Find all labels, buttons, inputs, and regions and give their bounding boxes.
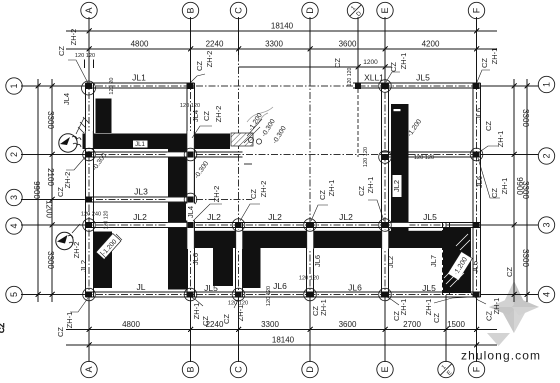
column A2 [83, 148, 96, 161]
svg-text:CZ: CZ [56, 327, 65, 337]
bubble B top [182, 2, 198, 18]
svg-text:JL1: JL1 [132, 73, 146, 83]
svg-text:CZ: CZ [222, 314, 231, 324]
leader A5 bottom [70, 298, 88, 312]
beam JL2 row4 A-F [85, 221, 480, 223]
svg-text:120 120: 120 120 [228, 301, 248, 307]
bottom dim line overall [66, 344, 497, 346]
leader E1 top [386, 72, 400, 82]
svg-text:4800: 4800 [131, 40, 149, 49]
short dash mark C-D bay [244, 163, 252, 165]
bubble 2 left [6, 146, 22, 162]
grid line C vertical [238, 17, 240, 362]
label JL4 white box on B beam [186, 204, 195, 221]
grid row 5 horizontal [21, 294, 538, 296]
svg-text:5: 5 [9, 292, 19, 297]
svg-text:120 120: 120 120 [414, 155, 434, 161]
grid line D vertical [309, 17, 311, 362]
svg-text:3600: 3600 [339, 40, 357, 49]
wall WE vertical right of E [391, 104, 409, 231]
svg-text:F: F [472, 366, 482, 372]
beam JL1 row1 A-B [85, 82, 194, 84]
wall W3 vertical at B left [168, 148, 188, 290]
svg-text:E: E [380, 7, 390, 13]
walls (black) [83, 99, 472, 294]
svg-text:JL3: JL3 [134, 187, 148, 197]
grid row 4 horizontal [21, 224, 538, 226]
elevation labels rotated [91, 112, 423, 180]
svg-text:ZH-1: ZH-1 [192, 303, 201, 320]
bubble C top [230, 2, 246, 18]
bubble 4 right [538, 286, 554, 302]
svg-text:C: C [234, 7, 244, 14]
column A5 [83, 288, 96, 301]
svg-text:D: D [305, 366, 315, 373]
leader F1 top [477, 70, 490, 82]
svg-text:CZ: CZ [249, 189, 258, 199]
bubble 4 left [6, 218, 22, 234]
wall W2 long horizontal bar rows1-2 [83, 134, 231, 150]
svg-text:-1.200: -1.200 [248, 112, 264, 132]
svg-text:3300: 3300 [521, 109, 530, 127]
svg-text:9900: 9900 [515, 177, 524, 195]
white tick in WE top [394, 109, 401, 111]
leader C5 bottom [234, 297, 239, 308]
beam JL7 line 1/E lower [442, 222, 444, 297]
svg-text:120 120: 120 120 [299, 276, 319, 282]
bubble 5 left [6, 286, 22, 302]
leader F2 mid [478, 146, 498, 153]
svg-text:ZH-1: ZH-1 [399, 53, 408, 70]
svg-text:zhulong.com: zhulong.com [461, 349, 541, 363]
faint scribbles C-D bay [247, 107, 273, 124]
svg-text:JL4: JL4 [186, 206, 195, 218]
svg-text:CZ: CZ [195, 61, 204, 71]
svg-text:JL6: JL6 [471, 261, 480, 273]
left dim ticks [36, 84, 55, 298]
svg-text:ZH-1: ZH-1 [65, 312, 74, 329]
svg-text:CZ: CZ [484, 121, 493, 131]
svg-text:18140: 18140 [272, 336, 295, 345]
leader E5 bottom [387, 297, 399, 305]
svg-text:JL6: JL6 [191, 253, 200, 265]
svg-text:JL4: JL4 [191, 110, 200, 122]
left dim lines [51, 79, 53, 302]
watermark logo bottom right [487, 281, 539, 346]
grid line B vertical [190, 17, 192, 362]
bubble A top [81, 2, 97, 18]
svg-text:9900: 9900 [32, 181, 41, 199]
column B3 [184, 193, 197, 206]
leader A2 mid [66, 155, 87, 170]
wall block at 1/E [443, 228, 471, 293]
svg-text:XLL1: XLL1 [364, 73, 384, 83]
svg-text:CZ: CZ [485, 311, 494, 321]
svg-text:CZ: CZ [392, 311, 401, 321]
bubble D bottom [302, 361, 318, 377]
bubble 1/D top rotated [344, 0, 367, 22]
svg-text:CZ: CZ [318, 190, 327, 200]
column E5 [379, 288, 392, 301]
bubble F top [468, 2, 484, 18]
column B4 [188, 222, 194, 228]
svg-text:4: 4 [542, 292, 552, 297]
bubble B bottom [182, 361, 198, 377]
bubble 1 right [538, 76, 554, 92]
rotated beam labels [56, 29, 514, 337]
bubble D top [302, 2, 318, 18]
svg-text:F: F [472, 7, 482, 13]
svg-text:120 240: 120 240 [81, 212, 101, 218]
pit hatch box near A4 [96, 234, 121, 260]
column D4 [304, 219, 317, 232]
svg-text:ZH-2: ZH-2 [214, 106, 223, 123]
svg-text:3300: 3300 [261, 320, 279, 329]
svg-text:3: 3 [9, 195, 19, 200]
left row leaders [21, 85, 84, 87]
detail callout A circle [56, 224, 80, 250]
bubble F bottom [468, 361, 484, 377]
crossing row4 beam over WE [390, 222, 410, 227]
mini dim strokes at A [84, 60, 86, 69]
svg-text:-0.300: -0.300 [272, 125, 288, 145]
wall band W5 rows4-5 B to 1/E [195, 231, 445, 248]
svg-text:3600: 3600 [339, 320, 357, 329]
column F5 [474, 292, 480, 298]
bottom extension lines [88, 298, 90, 363]
leader 1/E block bottom [471, 293, 486, 304]
svg-text:JL2: JL2 [79, 260, 88, 272]
bubble E bottom [377, 361, 393, 377]
svg-text:ZH-2: ZH-2 [259, 181, 268, 198]
crossing row4 beam over W3 [167, 222, 189, 227]
crossing D beam over band W5 [307, 230, 314, 249]
svg-text:2: 2 [542, 153, 552, 158]
right row extensions [481, 85, 538, 87]
svg-text:3300: 3300 [265, 40, 283, 49]
svg-text:-0.300: -0.300 [193, 160, 210, 180]
bottom dim ticks [87, 327, 480, 348]
grid row 3 horizontal [21, 199, 252, 201]
svg-text:ZH-2: ZH-2 [205, 51, 214, 68]
top dim line segments [66, 48, 497, 50]
small 120 dims [75, 53, 434, 307]
pit hatch box right of W2 [231, 119, 262, 146]
svg-text:3300: 3300 [46, 111, 55, 129]
svg-text:C: C [234, 366, 244, 373]
right dim lines [513, 79, 515, 302]
grid line 1/E vertical dashed [445, 223, 447, 362]
bubble 2 right [538, 148, 554, 164]
column B2 [184, 148, 197, 161]
beam row2 A-C [85, 151, 242, 153]
svg-text:CZ: CZ [389, 62, 398, 72]
svg-text:JL2: JL2 [268, 212, 282, 222]
crossing row3 beam over W3 [167, 197, 189, 202]
svg-text:-1.200: -1.200 [406, 118, 423, 138]
svg-text:E: E [446, 370, 453, 377]
svg-text:JL2: JL2 [133, 212, 147, 222]
svg-text:CZ: CZ [202, 111, 211, 121]
beam crossings over walls [85, 109, 472, 280]
top dim line overall [66, 30, 497, 32]
top extension lines from bubbles [88, 18, 90, 84]
svg-text:JL7: JL7 [429, 255, 438, 267]
column C5 [232, 288, 245, 301]
leader C4 mid [240, 204, 260, 221]
svg-text:2700: 2700 [403, 320, 421, 329]
svg-text:A: A [84, 7, 94, 13]
label JL2 white box in WE [392, 175, 402, 197]
svg-text:JL2: JL2 [392, 180, 401, 192]
beam XLL1/JL5 row1 1/D-F [353, 82, 481, 84]
wall W4 vertical near A rows4-5 [93, 232, 112, 289]
column F2 [470, 148, 483, 161]
svg-text:2: 2 [9, 152, 19, 157]
column 1/D1 [355, 83, 361, 89]
svg-text:ZH-1: ZH-1 [319, 299, 328, 316]
svg-text:1: 1 [441, 364, 448, 371]
leader B5 bottom [191, 297, 203, 306]
svg-text:4: 4 [9, 223, 19, 228]
beam row5 A-F [85, 291, 480, 293]
bubble 3 left [6, 189, 22, 205]
column A1 [82, 81, 96, 95]
svg-text:ZH-1: ZH-1 [327, 180, 336, 197]
beam JL3 row3 A-B [85, 196, 194, 198]
crossing C beam over band W5 [236, 230, 243, 249]
svg-text:CZ: CZ [480, 58, 489, 68]
svg-text:JL5: JL5 [416, 73, 430, 83]
svg-text:CZ: CZ [505, 267, 514, 277]
grid line F vertical [476, 17, 478, 362]
svg-text:ZH-2: ZH-2 [72, 242, 81, 259]
svg-text:4800: 4800 [122, 320, 140, 329]
svg-text:3: 3 [542, 222, 552, 227]
column A3 [86, 197, 92, 203]
bubble C bottom [230, 361, 246, 377]
svg-text:4200: 4200 [422, 40, 440, 49]
wall W6 vertical stub [213, 231, 233, 286]
beam JL6 column line F vertical [472, 83, 474, 297]
svg-text:CZ: CZ [432, 313, 441, 323]
svg-text:JL4: JL4 [62, 93, 71, 105]
svg-text:B: B [186, 7, 196, 13]
svg-text:JL1: JL1 [135, 142, 145, 148]
svg-text:1: 1 [350, 5, 357, 12]
svg-text:ZH-1: ZH-1 [424, 299, 433, 316]
svg-text:ZH-1: ZH-1 [236, 305, 245, 322]
leader F5 bottom [434, 297, 473, 303]
svg-text:JL5: JL5 [423, 212, 437, 222]
svg-text:1200: 1200 [45, 200, 54, 218]
crossing row2 beam over W3 [167, 152, 189, 157]
grid line 1/D vertical dashed [357, 17, 359, 157]
svg-text:JL2: JL2 [339, 212, 353, 222]
column E1 [379, 80, 392, 93]
column E2 [379, 151, 392, 164]
leader B1 [192, 126, 212, 138]
column E4 [379, 219, 392, 232]
svg-text:CZ: CZ [357, 186, 366, 196]
svg-text:120 120: 120 120 [363, 147, 369, 167]
wall W1 below JL1 near A [96, 99, 112, 134]
column D5 [304, 288, 317, 301]
column B1 [188, 83, 194, 89]
beam column line C vertical lower [235, 222, 237, 297]
svg-text:ZH-2: ZH-2 [69, 29, 78, 46]
leader B1 top [191, 74, 205, 82]
leader A1 top-left [68, 60, 88, 83]
beam JL4 column line B vertical [186, 83, 188, 297]
svg-text:120 120: 120 120 [347, 68, 353, 87]
svg-text:A: A [84, 366, 94, 372]
leader F2 lower [478, 158, 500, 198]
column C4 [232, 219, 245, 232]
svg-text:CZ: CZ [490, 188, 499, 198]
bubble 1/E bottom rotated [434, 358, 457, 381]
svg-text:1: 1 [9, 83, 19, 88]
hatched pits [56, 119, 470, 287]
beam JL6 column line D vertical lower [306, 222, 308, 297]
svg-text:JL2: JL2 [386, 256, 395, 268]
svg-text:ZH-1: ZH-1 [490, 48, 499, 65]
svg-text:CZ: CZ [333, 58, 342, 68]
svg-text:ZH-2: ZH-2 [63, 172, 72, 189]
bubble A bottom [81, 361, 97, 377]
beams [85, 83, 480, 297]
svg-text:ZH-1: ZH-1 [496, 131, 505, 148]
grid row 2 horizontal [21, 154, 538, 156]
beam JL4 column line A vertical [84, 83, 86, 297]
svg-text:JL5: JL5 [204, 283, 218, 293]
label JL1 white box in W2 [133, 141, 148, 149]
svg-text:ZH-1: ZH-1 [366, 177, 375, 194]
svg-text:120 20: 120 20 [109, 77, 115, 94]
grid row 1 horizontal [21, 85, 538, 87]
bubble 1 left [6, 78, 22, 94]
leader B4 mid [193, 204, 222, 221]
svg-text:E: E [380, 366, 390, 372]
right dim ticks [512, 84, 530, 298]
detail callout circle upper with arrow [59, 134, 77, 152]
pit hatch white lines on 1/E block [444, 234, 470, 287]
svg-text:B: B [186, 366, 196, 372]
column F1 [474, 83, 480, 89]
svg-text:120 120: 120 120 [180, 103, 200, 109]
leader D4 mid [311, 205, 328, 221]
beam row2 E-F [382, 151, 481, 153]
leader E4 mid [368, 200, 384, 221]
crossing A beam over W2 [85, 131, 93, 148]
crossing B beam over W2+W3 band [187, 131, 194, 249]
wall W7 vertical stub at C right [243, 231, 261, 288]
svg-text:ZH-2: ZH-2 [212, 186, 221, 203]
svg-text:2240: 2240 [206, 40, 224, 49]
svg-text:120 120: 120 120 [75, 53, 95, 59]
grid line E vertical [384, 17, 386, 362]
bottom dim line segments [66, 329, 497, 331]
svg-text:120 120: 120 120 [104, 211, 110, 230]
leader lines to labels [0, 60, 500, 333]
bubble 3 right [538, 217, 554, 233]
svg-text:3300: 3300 [521, 249, 530, 267]
svg-text:CZ: CZ [201, 316, 210, 326]
svg-text:1500: 1500 [447, 320, 465, 329]
crossing E beam over band W5 [382, 230, 389, 249]
svg-text:D: D [305, 7, 315, 14]
svg-text:JL6: JL6 [475, 176, 484, 188]
svg-text:3300: 3300 [46, 251, 55, 269]
svg-text:JL6: JL6 [474, 108, 483, 120]
svg-text:2100: 2100 [46, 168, 55, 186]
grid line A vertical [88, 17, 90, 362]
column A4 [83, 219, 96, 232]
svg-text:1: 1 [542, 82, 552, 87]
svg-text:JL6: JL6 [348, 283, 362, 293]
columns [82, 80, 483, 301]
svg-text:JL2: JL2 [207, 212, 221, 222]
top sub dim 1200 line [239, 66, 393, 68]
svg-text:CZ: CZ [0, 323, 6, 333]
bubble E top [377, 2, 393, 18]
watermark logo left circle [59, 117, 89, 152]
svg-text:-0.300: -0.300 [91, 152, 108, 172]
svg-text:ZH-1: ZH-1 [500, 178, 509, 195]
svg-text:1200: 1200 [363, 59, 378, 66]
svg-text:CZ: CZ [57, 46, 66, 56]
top dim ticks [87, 29, 480, 70]
column B5 [184, 288, 197, 301]
svg-text:120 120: 120 120 [266, 286, 272, 306]
label -1.200 white diag band in 1/E block [448, 252, 473, 281]
svg-text:JL6: JL6 [313, 255, 322, 267]
svg-text:18140: 18140 [271, 22, 294, 31]
column F4 [474, 222, 480, 228]
beam JL2 column line E vertical [381, 83, 383, 297]
svg-text:JL5: JL5 [422, 283, 436, 293]
svg-text:JL6: JL6 [273, 281, 287, 291]
svg-text:JL: JL [137, 282, 146, 292]
svg-text:CZ: CZ [56, 187, 65, 197]
